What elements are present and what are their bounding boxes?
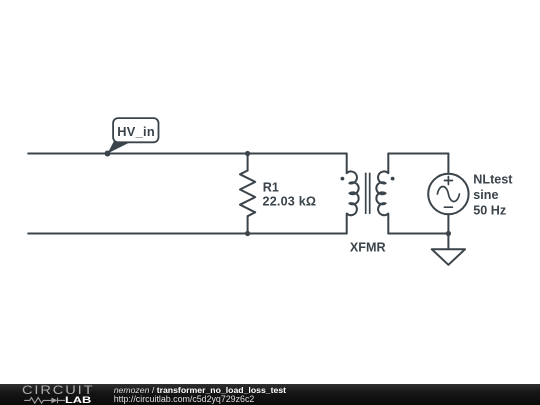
source plus sign <box>444 177 452 185</box>
wire bottom rail <box>28 233 347 235</box>
transformer secondary winding <box>376 154 388 234</box>
CircuitLab logo text LAB <box>65 395 91 405</box>
footer bar <box>0 384 540 405</box>
node dot HV_in <box>105 151 111 157</box>
node dot ground junction <box>446 231 451 236</box>
resistor R1 <box>240 154 255 234</box>
svg-text:sine: sine <box>473 188 498 202</box>
svg-text:22.03 kΩ: 22.03 kΩ <box>263 194 317 208</box>
svg-text:NLtest: NLtest <box>473 173 513 187</box>
source minus sign <box>444 206 452 208</box>
svg-text:HV_in: HV_in <box>117 124 155 139</box>
svg-text:R1: R1 <box>263 181 279 195</box>
voltage source NLtest <box>428 154 468 234</box>
footer line 1 <box>114 385 286 395</box>
node dot R1 bottom <box>245 231 250 236</box>
transformer phase dot primary <box>341 177 345 181</box>
transformer phase dot secondary <box>391 177 395 181</box>
source sine wave <box>437 187 459 202</box>
node HV_in flag <box>108 118 159 153</box>
wire secondary top <box>388 153 448 155</box>
node dot R1 top <box>245 151 250 156</box>
svg-text:50 Hz: 50 Hz <box>473 203 506 217</box>
transformer XFMR primary winding <box>347 154 359 234</box>
ground <box>432 234 465 265</box>
transformer core <box>366 173 370 213</box>
CircuitLab logo text CIRCUIT <box>22 384 94 397</box>
wire secondary bottom <box>388 233 448 235</box>
svg-text:XFMR: XFMR <box>350 240 386 254</box>
footer line 2 <box>114 394 255 404</box>
wire top rail <box>28 153 347 155</box>
CircuitLab logo squiggle <box>22 396 68 405</box>
